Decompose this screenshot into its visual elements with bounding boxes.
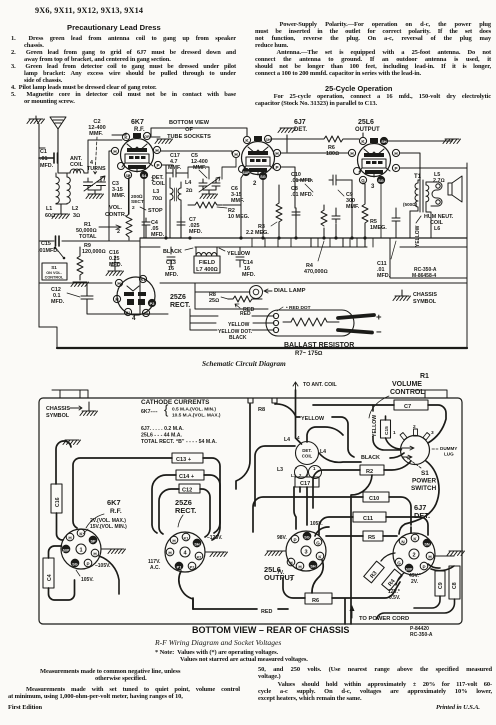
svg-text:COIL: COIL	[152, 181, 166, 187]
pin K	[411, 534, 419, 542]
switch S1	[42, 247, 67, 280]
bottom view of tube sockets label	[167, 120, 211, 140]
svg-text:VOL.: VOL.	[109, 205, 122, 211]
coil 4 turns (antenna primary)	[70, 169, 84, 173]
S1 power switch label	[406, 457, 437, 492]
svg-text:.01 MFD.: .01 MFD.	[291, 178, 314, 184]
svg-text:6K7: 6K7	[107, 498, 121, 507]
svg-text:CHASSIS: CHASSIS	[413, 292, 437, 298]
svg-text:K2: K2	[144, 312, 149, 316]
capacitor at x296	[292, 208, 300, 219]
svg-text:4: 4	[297, 435, 300, 440]
svg-text:• RED DOT: • RED DOT	[286, 305, 311, 311]
pin SP	[89, 536, 97, 544]
capacitor C7	[177, 217, 203, 238]
pin SH	[264, 135, 271, 142]
wire C12 to 25Z6	[159, 489, 210, 537]
pin SN	[423, 539, 431, 547]
svg-text:RECT.: RECT.	[175, 506, 196, 515]
pin K1	[182, 533, 190, 541]
wire heater/line bus left	[39, 282, 467, 284]
svg-text:K: K	[361, 139, 365, 144]
tube 6K7	[111, 119, 161, 183]
tube 25L6	[348, 119, 399, 190]
pin P1	[124, 308, 131, 315]
svg-text:C8: C8	[452, 582, 458, 589]
svg-text:1MEG.: 1MEG.	[370, 225, 387, 231]
pin H	[232, 150, 239, 157]
svg-text:15V.(VOL. MIN.): 15V.(VOL. MIN.)	[90, 524, 127, 530]
pin K	[243, 136, 250, 143]
ground right of 6J7	[434, 551, 465, 556]
svg-text:H: H	[168, 550, 172, 555]
svg-text:P: P	[156, 163, 159, 168]
ground top middle	[278, 128, 296, 152]
svg-text:RED: RED	[240, 311, 251, 317]
resistor R3 box angled	[364, 561, 385, 583]
svg-text:2Ω: 2Ω	[186, 188, 193, 194]
pin SUP	[242, 168, 249, 175]
svg-text:6K7: 6K7	[131, 119, 144, 126]
svg-text:YELLOW: YELLOW	[301, 416, 325, 422]
svg-text:2: 2	[117, 229, 120, 235]
ground top left corner	[27, 116, 45, 148]
pin SH	[309, 561, 317, 569]
pin SG	[303, 532, 311, 540]
capacitor C11 box	[353, 512, 386, 522]
resistor R3	[246, 185, 282, 238]
svg-text:H: H	[115, 297, 119, 302]
svg-text:C15: C15	[41, 241, 51, 247]
svg-text:10.5 M.A.(VOL. MAX.): 10.5 M.A.(VOL. MAX.)	[172, 413, 221, 419]
wire yellow label	[219, 248, 251, 257]
ground right of 25Z6	[205, 552, 228, 557]
svg-text:C7: C7	[404, 404, 411, 410]
wire plate 6K7 to detector	[161, 151, 348, 172]
wire C10/C11 runs	[253, 497, 411, 532]
svg-text:10 MEG.: 10 MEG.	[228, 214, 250, 220]
resistor R5	[362, 184, 387, 238]
pin H left	[348, 149, 355, 156]
svg-text:DET.: DET.	[294, 127, 307, 133]
svg-text:R1: R1	[420, 373, 429, 380]
svg-text:OUTPUT: OUTPUT	[355, 127, 380, 133]
svg-text:G: G	[361, 178, 365, 183]
svg-text:POWER: POWER	[412, 478, 437, 485]
capacitor C9 label	[338, 190, 360, 210]
capacitor C4	[142, 218, 165, 238]
wire leads to ballast	[190, 309, 274, 330]
wire 25L6 H right to border	[400, 153, 420, 180]
pin P2	[188, 562, 196, 570]
svg-text:C11: C11	[363, 516, 373, 522]
wire bus tie verticals	[252, 184, 381, 247]
svg-text:SUP: SUP	[243, 171, 251, 175]
coupling capacitor	[329, 175, 352, 185]
wire transformer secondary down	[410, 182, 431, 238]
wire 105V C11 to 25L6 SG	[315, 527, 329, 536]
wire cathode 25L6	[363, 133, 384, 144]
svg-text:RED: RED	[261, 609, 272, 615]
wire 6K7 G to 25Z6	[99, 556, 119, 594]
svg-text:4: 4	[183, 551, 187, 557]
cathode currents table	[141, 399, 221, 445]
to power cord	[350, 605, 410, 622]
pin H right	[153, 146, 160, 153]
svg-text:S1: S1	[51, 265, 57, 270]
svg-text:DIAL LAMP: DIAL LAMP	[274, 288, 306, 294]
svg-text:2V.: 2V.	[411, 579, 419, 585]
svg-text:SUP: SUP	[406, 567, 413, 571]
svg-text:TO ANT. COIL: TO ANT. COIL	[303, 382, 338, 388]
svg-text:7: 7	[290, 577, 293, 583]
red label with arrow	[235, 304, 254, 313]
svg-text:G: G	[397, 560, 401, 565]
resistor R4 box angled	[382, 569, 403, 591]
voltage labels 25L6	[277, 521, 323, 583]
svg-text:H: H	[289, 560, 293, 565]
svg-text:H: H	[68, 535, 72, 540]
svg-text:ON VOL.: ON VOL.	[46, 271, 62, 275]
wire C16 to socket	[57, 513, 64, 540]
svg-text:CONTROL: CONTROL	[45, 276, 64, 280]
pin K	[359, 137, 366, 144]
pin P2	[148, 299, 155, 306]
wire R5	[326, 535, 397, 537]
svg-text:YELLOW: YELLOW	[228, 322, 250, 328]
svg-text:Schematic Circuit Diagram: Schematic Circuit Diagram	[202, 359, 286, 368]
pin H	[115, 279, 122, 286]
svg-text:+: +	[376, 312, 382, 323]
svg-text:P2: P2	[150, 302, 155, 306]
pin SG	[259, 172, 266, 179]
svg-text:SYMBOL: SYMBOL	[413, 299, 437, 305]
tube 6J7	[232, 119, 307, 187]
svg-text:P2: P2	[190, 565, 195, 569]
wire S1 sweep to 6J7	[399, 461, 439, 534]
pin H2	[287, 558, 295, 566]
svg-text:3: 3	[371, 184, 375, 190]
svg-text:3Ω: 3Ω	[73, 213, 80, 219]
svg-text:H: H	[155, 148, 159, 153]
wire grid coil down	[170, 205, 181, 238]
pin H2	[113, 295, 120, 302]
pin N	[399, 537, 407, 545]
wire R2	[313, 461, 411, 624]
wire 25L6 grid down	[352, 180, 363, 184]
svg-text:L4: L4	[320, 449, 326, 455]
svg-text:1: 1	[313, 466, 316, 471]
svg-text:R6: R6	[312, 598, 319, 604]
svg-text:K1: K1	[141, 278, 146, 282]
svg-text:H: H	[275, 151, 279, 156]
coil L1	[56, 173, 59, 204]
svg-text:K: K	[124, 135, 128, 140]
capacitor C9 box	[435, 571, 445, 596]
svg-text:YELLOW: YELLOW	[227, 251, 251, 257]
wire main bus	[140, 237, 467, 239]
svg-text:SH: SH	[194, 542, 200, 546]
wire 6J7 plate to coupling	[281, 167, 312, 208]
svg-text:SYMBOL: SYMBOL	[46, 413, 70, 419]
tube socket 25L6	[264, 531, 326, 582]
svg-text:R.F.: R.F.	[110, 508, 122, 515]
voltage labels 6J7	[388, 573, 421, 601]
pin P	[291, 535, 299, 543]
resistor R5 box	[363, 531, 383, 541]
svg-text:TO POWER CORD: TO POWER CORD	[359, 616, 409, 622]
capacitor C16	[106, 250, 124, 276]
svg-text:6K7----: 6K7----	[141, 409, 158, 415]
svg-text:2: 2	[253, 181, 257, 187]
svg-text:R4: R4	[387, 578, 397, 588]
pin K	[316, 552, 324, 560]
label R4	[304, 241, 328, 275]
svg-text:MFD.: MFD.	[242, 272, 256, 278]
wire left border	[38, 148, 40, 327]
tube socket 6J7	[393, 503, 435, 575]
pin H	[296, 562, 304, 570]
svg-text:YELLOW: YELLOW	[372, 415, 378, 437]
pin H2	[166, 548, 174, 556]
svg-text:0.5 M.A.(VOL. MIN.): 0.5 M.A.(VOL. MIN.)	[172, 407, 216, 413]
svg-text:L3: L3	[153, 189, 159, 195]
resistor R9	[71, 243, 106, 287]
pin SP	[124, 171, 131, 178]
wire verticals into bus	[296, 180, 365, 247]
svg-text:P: P	[275, 165, 278, 170]
svg-text:CONTROL: CONTROL	[390, 389, 425, 396]
svg-text:S1: S1	[421, 470, 429, 477]
capacitor C14 box	[176, 470, 204, 480]
svg-text:COIL: COIL	[302, 454, 313, 459]
wire grid cap 6K7	[112, 133, 126, 135]
wire C4 to socket	[49, 546, 75, 600]
svg-text:SP: SP	[125, 174, 131, 178]
capacitor C12	[51, 283, 93, 305]
svg-text:L4: L4	[284, 437, 290, 443]
svg-text:SP: SP	[90, 539, 96, 543]
svg-text:BLACK: BLACK	[229, 335, 247, 341]
ground right of 6K7	[101, 549, 126, 554]
red dot label	[277, 305, 311, 311]
svg-text:SH: SH	[265, 138, 271, 142]
antenna	[50, 117, 66, 172]
svg-text:CATHODE CURRENTS: CATHODE CURRENTS	[141, 399, 210, 406]
wire 25Z6 to RED run	[179, 571, 193, 609]
wire RC box partition	[390, 238, 467, 278]
svg-text:G: G	[316, 540, 320, 545]
wire black label	[163, 248, 193, 255]
pin G	[359, 176, 366, 183]
wire to antenna coil	[293, 382, 343, 444]
pin SUP	[62, 545, 70, 553]
svg-text:70Ω: 70Ω	[152, 196, 162, 202]
capacitor C8 box	[449, 566, 460, 599]
svg-text:98V.: 98V.	[277, 535, 287, 541]
svg-text:MMF.: MMF.	[346, 204, 360, 210]
svg-text:3: 3	[431, 430, 434, 436]
transformer T1	[403, 174, 431, 212]
ground under L1 L2	[52, 204, 70, 219]
svg-text:YELLOW: YELLOW	[415, 225, 421, 247]
svg-text:MFD.: MFD.	[51, 299, 65, 305]
svg-text:C13 +: C13 +	[176, 457, 192, 463]
volume control S1 assembly	[393, 424, 457, 465]
wire 6K7 plate down	[165, 172, 167, 238]
svg-text:H: H	[234, 152, 238, 157]
wire volume to C7	[313, 405, 446, 443]
field coil L7	[194, 247, 220, 273]
svg-text:6J7. . . . . 0.2 M.A.: 6J7. . . . . 0.2 M.A.	[141, 426, 184, 432]
wire red bottom	[193, 609, 288, 615]
svg-text:MFD.: MFD.	[189, 229, 203, 235]
tube 25Z6	[113, 275, 155, 322]
svg-text:105V.: 105V.	[81, 577, 94, 583]
wire yellow vertical	[372, 405, 401, 450]
svg-text:L7 400Ω: L7 400Ω	[196, 267, 218, 273]
svg-text:180Ω: 180Ω	[326, 151, 339, 157]
svg-text:1: 1	[79, 548, 82, 554]
wire C17/C5 to 6J7 grid	[166, 158, 236, 179]
pin SG	[71, 559, 79, 567]
svg-text:MFD.: MFD.	[165, 272, 179, 278]
svg-text:CHASSIS: CHASSIS	[46, 406, 70, 412]
svg-text:TOTAL: TOTAL	[79, 234, 97, 240]
svg-text:H: H	[298, 564, 302, 569]
svg-text:R.F.: R.F.	[134, 127, 145, 133]
svg-text:L6: L6	[434, 226, 440, 232]
capacitor C17 box (wiring)	[295, 477, 319, 487]
svg-text:RECT.: RECT.	[170, 302, 190, 309]
svg-text:2: 2	[413, 424, 416, 430]
wire R6 runs	[283, 578, 400, 624]
pin P	[154, 161, 161, 168]
ground at 6K7 grid return	[151, 137, 173, 144]
node junction dots	[164, 236, 366, 239]
svg-text:M-86458-4: M-86458-4	[412, 273, 436, 279]
voltage labels 6K7	[76, 518, 127, 583]
stop label	[140, 207, 163, 214]
svg-text:SG: SG	[304, 535, 310, 539]
svg-text:SG: SG	[260, 175, 266, 179]
svg-text:C15: C15	[384, 426, 390, 435]
svg-text:.01 MFD.: .01 MFD.	[291, 192, 314, 198]
svg-text:MMF.: MMF.	[168, 165, 182, 171]
svg-text:.01: .01	[40, 156, 48, 162]
wire lower bus	[140, 246, 467, 248]
chassis symbol (wiring)	[46, 402, 98, 419]
svg-text:FIELD: FIELD	[199, 260, 215, 266]
svg-text:SH: SH	[310, 564, 316, 568]
wire grid-cap riser	[88, 140, 122, 173]
svg-text:SECT.: SECT.	[131, 199, 145, 205]
wire 25L6 K to R6	[312, 560, 323, 593]
svg-text:2: 2	[412, 553, 415, 559]
trimmer capacitor C6	[199, 177, 220, 199]
svg-text:MMF.: MMF.	[193, 165, 207, 171]
svg-text:MMF.: MMF.	[112, 193, 126, 199]
pin P1	[175, 562, 183, 570]
svg-text:SUP: SUP	[63, 548, 70, 552]
capacitor at x336	[332, 212, 340, 223]
capacitor C13	[165, 247, 179, 278]
pin P	[84, 559, 92, 567]
svg-text:P1: P1	[126, 311, 131, 315]
svg-text:470,000Ω: 470,000Ω	[304, 269, 328, 275]
svg-text:C4: C4	[47, 574, 53, 581]
capacitor C13 box	[172, 453, 203, 463]
resistor R8 on terminal strip	[239, 398, 285, 413]
svg-text:K1: K1	[184, 536, 189, 540]
svg-text:H: H	[93, 551, 97, 556]
wire heater drop	[109, 151, 111, 241]
wire yellow top	[236, 404, 354, 489]
svg-text:C17: C17	[300, 481, 310, 487]
wire 25L6 grid to R5	[363, 183, 365, 184]
svg-text:L2: L2	[72, 206, 78, 212]
pin K1	[139, 275, 146, 282]
pin SUP	[405, 564, 413, 572]
wire bottom border	[57, 347, 467, 349]
wire antenna to coil	[58, 163, 88, 173]
speaker	[448, 176, 462, 202]
svg-text:C16: C16	[55, 497, 61, 507]
svg-text:25Z6: 25Z6	[170, 294, 186, 301]
pin H	[426, 552, 434, 560]
ground left of 25L6	[265, 551, 286, 556]
svg-text:MFD.: MFD.	[377, 273, 391, 279]
svg-text:3: 3	[304, 550, 307, 556]
svg-text:C12: C12	[182, 488, 192, 494]
svg-text:MMF.: MMF.	[89, 131, 103, 137]
ballast resistor	[266, 310, 382, 338]
svg-text:C1: C1	[40, 149, 47, 155]
svg-text:120,000Ω: 120,000Ω	[82, 249, 106, 255]
resistor R2	[188, 202, 250, 220]
speaker coil L5	[431, 172, 445, 206]
tube socket 25Z6	[165, 498, 205, 572]
svg-text:25L6: 25L6	[358, 119, 374, 126]
svg-text:LUG: LUG	[444, 452, 454, 457]
svg-text:SN: SN	[424, 542, 430, 546]
svg-text:P: P	[86, 561, 89, 566]
pin SH	[193, 539, 201, 547]
svg-text:MFD.: MFD.	[40, 163, 54, 169]
svg-text:P1: P1	[177, 565, 182, 569]
svg-text:DUMMY: DUMMY	[440, 446, 457, 451]
capacitor C10 C8 labels	[291, 172, 314, 198]
svg-text:105V.: 105V.	[310, 521, 323, 527]
chassis symbol (schematic)	[393, 290, 437, 305]
svg-text:L3: L3	[277, 467, 283, 473]
svg-text:7V.: 7V.	[277, 570, 285, 576]
black label wire	[319, 453, 404, 462]
wire B-minus hook to chassis ground	[56, 440, 81, 484]
capacitor C1	[39, 149, 58, 169]
pin H	[66, 533, 74, 541]
svg-text:CONTR.: CONTR.	[105, 212, 127, 218]
pin K2	[142, 309, 149, 316]
svg-text:SWITCH: SWITCH	[411, 485, 437, 492]
svg-text:L4: L4	[185, 180, 191, 186]
capacitor C2 label	[88, 119, 105, 174]
dial lamp	[250, 286, 306, 299]
tube socket 6K7	[61, 498, 122, 569]
svg-text:K: K	[318, 554, 322, 559]
detector coil assembly	[277, 435, 326, 479]
svg-text:TURNS: TURNS	[87, 166, 106, 172]
